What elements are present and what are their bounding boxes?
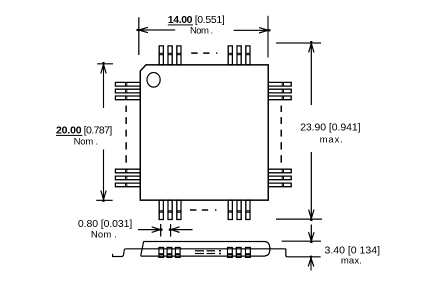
dimension line 14.00 left segment with arrow xyxy=(137,27,176,32)
dimension line 14.00 right segment with arrow xyxy=(234,28,271,33)
break line dashes top (omitted leads) xyxy=(191,52,217,54)
extension line pitch 0.80 right xyxy=(170,224,172,237)
side view break dashes row 1 xyxy=(195,250,221,252)
svg-text:14.00: 14.00 xyxy=(168,14,193,26)
extension line bottom of 20.00 dimension xyxy=(96,199,113,201)
dimension line 23.90 lower segment with down arrow xyxy=(309,152,314,221)
extension line top of 20.00 dimension xyxy=(97,63,113,65)
break line dashes left (omitted leads) xyxy=(125,106,127,163)
pin top-left group lead 2 xyxy=(168,46,172,65)
pin top-right group lead 2 xyxy=(237,46,241,65)
dimension 3.40 lower arrow pointing up xyxy=(308,256,314,271)
break line dashes bottom (omitted leads) xyxy=(190,209,216,211)
extension line top of 3.40 dimension xyxy=(282,240,321,242)
pin right-lower group lead 3 xyxy=(268,183,291,187)
pin bottom-left group lead 3 xyxy=(177,200,181,219)
side view body profile bottom edge xyxy=(141,255,265,257)
pin right-lower group lead 2 xyxy=(268,176,291,180)
pin right-lower group lead 1 xyxy=(268,169,291,173)
extension line left of 14.00 dimension xyxy=(138,17,140,55)
pin bottom-right group lead 1 xyxy=(228,200,232,219)
pin right-upper group lead 1 xyxy=(268,82,291,86)
pin bottom-left group lead 1 xyxy=(159,200,163,219)
svg-text:23.90 [0.941]: 23.90 [0.941] xyxy=(300,121,361,133)
pin top-left group lead 1 xyxy=(159,46,163,65)
side view break dashes row 2 xyxy=(195,253,221,255)
svg-text:[0.787]: [0.787] xyxy=(84,125,113,137)
side view lead 1 left group xyxy=(159,247,164,257)
extension line right of 14.00 dimension xyxy=(267,16,269,58)
svg-text:max.: max. xyxy=(341,256,362,267)
package body outline (top view, chamfered pin-1 corner) xyxy=(140,65,268,200)
pin bottom-right group lead 3 xyxy=(246,200,250,219)
dimension 0.80 right arrow pointing left xyxy=(169,227,193,233)
dimension line 23.90 upper segment with up arrow xyxy=(309,41,314,105)
pin left-lower group lead 1 xyxy=(115,169,140,173)
pin left-lower group lead 3 xyxy=(115,183,140,187)
pin right-upper group lead 2 xyxy=(268,89,291,93)
extension line pitch 0.80 left xyxy=(160,224,162,237)
svg-text:[0.551]: [0.551] xyxy=(195,14,225,26)
pin left-upper group lead 3 xyxy=(115,96,140,100)
side view lead 1 right group xyxy=(228,247,233,257)
svg-text:20.00: 20.00 xyxy=(56,125,82,137)
extension line bottom of 23.90 dimension xyxy=(276,218,322,220)
pin bottom-left group lead 2 xyxy=(168,200,172,219)
pin top-right group lead 1 xyxy=(228,46,232,65)
svg-text:max.: max. xyxy=(320,135,343,146)
pin right-upper group lead 3 xyxy=(268,96,291,100)
side view lead 3 right group xyxy=(246,247,251,257)
side view body profile top edge xyxy=(144,241,265,243)
pin top-right group lead 3 xyxy=(246,46,250,65)
pin bottom-right group lead 2 xyxy=(237,200,241,219)
svg-text:Nom .: Nom . xyxy=(74,136,99,147)
dimension line 20.00 upper segment with up arrow xyxy=(101,62,106,108)
side view lead 2 left group xyxy=(167,247,172,257)
svg-text:Nom .: Nom . xyxy=(190,26,213,37)
svg-text:Nom .: Nom . xyxy=(91,230,117,241)
pin left-lower group lead 2 xyxy=(115,176,140,180)
pin top-left group lead 3 xyxy=(177,46,181,65)
label 20.00 [0.787] xyxy=(56,125,112,137)
pin left-upper group lead 1 xyxy=(115,82,140,86)
dimension 3.40 upper arrow pointing down xyxy=(309,225,315,244)
side view right lead step down xyxy=(286,249,321,257)
dimension line 20.00 lower segment with down arrow xyxy=(101,149,106,201)
label 14.00 [0.551] xyxy=(168,14,225,26)
side view lead 2 right group xyxy=(236,247,241,257)
side view lead row top line xyxy=(126,248,286,250)
pin 1 index circle xyxy=(147,73,160,88)
break line dashes right (omitted leads) xyxy=(280,106,282,163)
svg-text:0.80 [0.031]: 0.80 [0.031] xyxy=(78,218,132,230)
side view lead 3 left group xyxy=(175,247,180,257)
side view left lead foot with end tick xyxy=(113,249,126,257)
extension line top of 23.90 dimension xyxy=(276,42,321,44)
side view body profile left chamfer xyxy=(141,242,144,256)
pin left-upper group lead 2 xyxy=(115,89,140,93)
side view body profile right rounded end xyxy=(265,242,270,256)
dimension 0.80 left arrow pointing right xyxy=(138,227,163,233)
